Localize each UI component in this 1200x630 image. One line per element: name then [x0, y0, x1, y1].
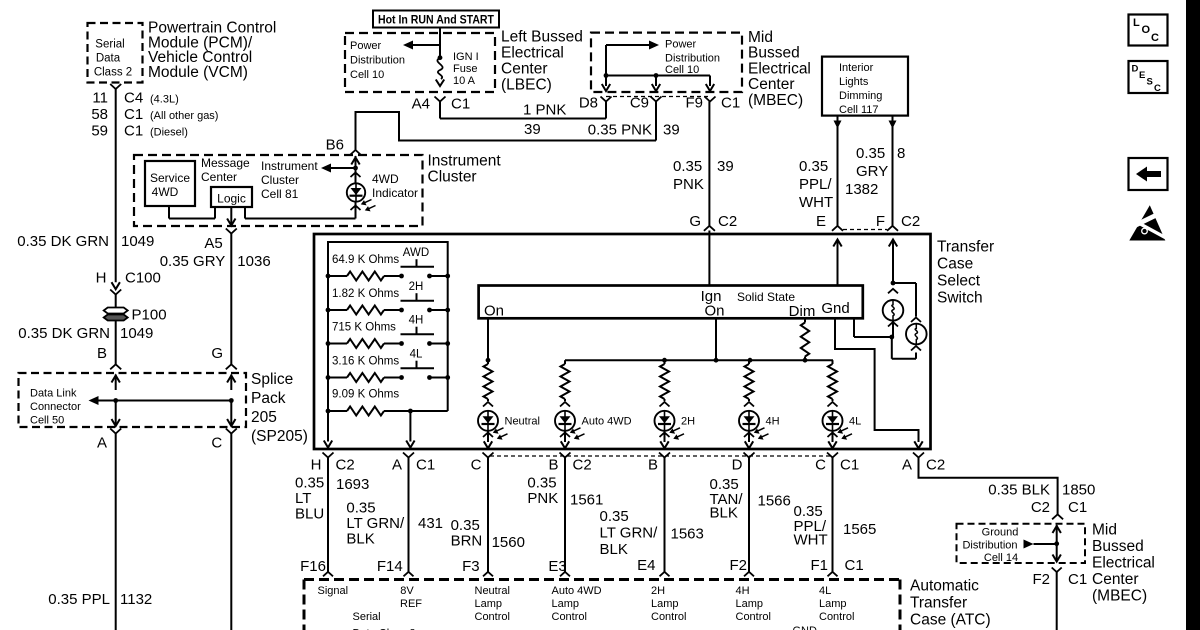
svg-text:10 A: 10 A: [453, 75, 476, 87]
svg-text:(Diesel): (Diesel): [150, 127, 188, 139]
svg-text:0.35 DK GRN: 0.35 DK GRN: [18, 325, 110, 342]
svg-text:BLK: BLK: [346, 531, 374, 548]
svg-text:1036: 1036: [237, 253, 270, 270]
svg-text:PNK: PNK: [673, 176, 704, 193]
svg-text:F14: F14: [377, 558, 403, 575]
svg-text:WHT: WHT: [794, 532, 828, 549]
svg-text:0.35: 0.35: [673, 158, 702, 175]
svg-text:A: A: [97, 435, 107, 452]
svg-text:Service: Service: [150, 171, 190, 185]
svg-text:Pack: Pack: [251, 390, 286, 407]
svg-text:Neutral: Neutral: [475, 585, 510, 597]
svg-text:Switch: Switch: [937, 290, 983, 307]
svg-text:4L: 4L: [819, 585, 831, 597]
svg-text:Electrical: Electrical: [501, 45, 564, 62]
svg-text:11: 11: [92, 90, 108, 107]
svg-text:C: C: [211, 435, 222, 452]
svg-text:G: G: [211, 345, 223, 362]
svg-text:C: C: [1154, 83, 1161, 94]
svg-text:Cell 50: Cell 50: [30, 415, 64, 427]
svg-text:F9: F9: [685, 95, 703, 112]
svg-text:1693: 1693: [336, 476, 369, 493]
svg-text:Cell 81: Cell 81: [261, 187, 299, 201]
svg-text:Cell 14: Cell 14: [984, 552, 1018, 564]
svg-text:Control: Control: [651, 611, 686, 623]
svg-text:Dimming: Dimming: [839, 90, 882, 102]
svg-text:D: D: [732, 457, 743, 474]
svg-text:C: C: [1151, 32, 1159, 44]
svg-text:39: 39: [663, 122, 680, 139]
svg-text:C1: C1: [124, 123, 143, 140]
svg-text:Electrical: Electrical: [748, 60, 811, 77]
svg-text:1049: 1049: [120, 325, 153, 342]
svg-text:0.35 DK GRN: 0.35 DK GRN: [17, 233, 109, 250]
svg-text:(LBEC): (LBEC): [501, 77, 552, 94]
svg-text:4H: 4H: [409, 315, 424, 327]
svg-text:0.35: 0.35: [295, 475, 324, 492]
svg-text:715 K Ohms: 715 K Ohms: [332, 322, 396, 334]
svg-text:Lamp: Lamp: [475, 598, 503, 610]
svg-text:On: On: [704, 303, 724, 320]
svg-text:Case (ATC): Case (ATC): [910, 612, 991, 629]
svg-text:Lamp: Lamp: [736, 598, 764, 610]
svg-text:Automatic: Automatic: [910, 578, 979, 595]
svg-text:Lamp: Lamp: [552, 598, 580, 610]
svg-text:Center: Center: [748, 76, 795, 93]
svg-text:8V: 8V: [400, 585, 414, 597]
svg-text:E: E: [1139, 70, 1145, 81]
svg-text:LT: LT: [295, 490, 311, 507]
svg-text:Message: Message: [201, 156, 250, 170]
svg-text:PNK: PNK: [527, 490, 558, 507]
svg-text:P100: P100: [132, 307, 167, 324]
svg-text:C2: C2: [718, 213, 737, 230]
svg-text:Interior: Interior: [839, 62, 874, 74]
svg-text:39: 39: [524, 121, 541, 138]
svg-text:0.35 PNK: 0.35 PNK: [588, 122, 652, 139]
svg-text:4WD: 4WD: [372, 172, 399, 186]
svg-text:0.35: 0.35: [527, 475, 556, 492]
svg-text:C2: C2: [901, 213, 920, 230]
svg-text:C1: C1: [416, 457, 435, 474]
svg-text:Distribution: Distribution: [962, 540, 1017, 552]
svg-text:BLK: BLK: [600, 541, 628, 558]
svg-text:A: A: [392, 457, 402, 474]
svg-text:Center: Center: [1092, 571, 1139, 588]
svg-text:C2: C2: [926, 457, 945, 474]
svg-text:9.09 K Ohms: 9.09 K Ohms: [332, 389, 399, 401]
svg-text:C: C: [471, 457, 482, 474]
svg-text:LT GRN/: LT GRN/: [346, 515, 405, 532]
svg-text:8: 8: [897, 145, 905, 162]
svg-text:F2: F2: [1032, 571, 1050, 588]
svg-text:E: E: [816, 213, 826, 230]
svg-text:59: 59: [91, 123, 108, 140]
svg-text:BLU: BLU: [295, 506, 324, 523]
svg-text:WHT: WHT: [799, 194, 833, 211]
svg-text:C1: C1: [124, 106, 143, 123]
svg-text:REF: REF: [400, 598, 422, 610]
svg-text:C1: C1: [1068, 571, 1087, 588]
svg-text:Transfer: Transfer: [937, 239, 994, 256]
svg-text:Ground: Ground: [982, 527, 1019, 539]
svg-text:H: H: [311, 457, 322, 474]
svg-text:(All other gas): (All other gas): [150, 110, 218, 122]
svg-text:C9: C9: [630, 95, 649, 112]
svg-text:(4.3L): (4.3L): [150, 94, 179, 106]
svg-text:Solid State: Solid State: [737, 290, 795, 304]
svg-text:Splice: Splice: [251, 371, 293, 388]
svg-text:Signal: Signal: [318, 585, 349, 597]
svg-text:Power: Power: [350, 40, 382, 52]
svg-text:Left Bussed: Left Bussed: [501, 29, 583, 46]
svg-text:F3: F3: [462, 558, 480, 575]
svg-text:Cell 10: Cell 10: [350, 69, 384, 81]
svg-text:B: B: [648, 457, 658, 474]
svg-text:C1: C1: [840, 457, 859, 474]
svg-text:Cell 10: Cell 10: [665, 64, 699, 76]
svg-text:Hot In RUN And START: Hot In RUN And START: [378, 12, 494, 26]
svg-text:58: 58: [91, 106, 108, 123]
svg-text:Mid: Mid: [748, 29, 773, 46]
svg-text:Serial: Serial: [95, 39, 124, 51]
svg-text:1566: 1566: [758, 493, 791, 510]
svg-text:IGN I: IGN I: [453, 51, 479, 63]
svg-text:O: O: [1142, 24, 1151, 36]
svg-text:A5: A5: [204, 235, 222, 252]
svg-text:Cluster: Cluster: [428, 169, 477, 186]
svg-text:Control: Control: [736, 611, 771, 623]
svg-text:0.35: 0.35: [799, 158, 828, 175]
svg-text:0.35: 0.35: [856, 145, 885, 162]
svg-text:Data: Data: [96, 53, 121, 65]
svg-text:E4: E4: [637, 557, 655, 574]
svg-text:0.35 PPL: 0.35 PPL: [48, 591, 110, 608]
svg-text:C1: C1: [721, 95, 740, 112]
svg-text:GND: GND: [793, 625, 818, 630]
svg-text:Cluster: Cluster: [261, 173, 299, 187]
svg-text:64.9 K Ohms: 64.9 K Ohms: [332, 254, 399, 266]
svg-text:(MBEC): (MBEC): [748, 92, 803, 109]
svg-text:Neutral: Neutral: [505, 416, 540, 428]
svg-text:D: D: [1132, 64, 1139, 75]
svg-text:Distribution: Distribution: [350, 55, 405, 67]
svg-text:Lights: Lights: [839, 76, 869, 88]
svg-text:Lamp: Lamp: [819, 598, 847, 610]
svg-text:Connector: Connector: [30, 401, 81, 413]
svg-text:Fuse: Fuse: [453, 63, 477, 75]
svg-text:PPL/: PPL/: [799, 176, 832, 193]
svg-text:Cell 117: Cell 117: [839, 104, 879, 116]
svg-text:39: 39: [717, 158, 734, 175]
svg-text:Lamp: Lamp: [651, 598, 679, 610]
svg-text:205: 205: [251, 409, 277, 426]
svg-text:4WD: 4WD: [152, 185, 179, 199]
svg-text:Bussed: Bussed: [1092, 538, 1144, 555]
svg-text:BRN: BRN: [451, 533, 483, 550]
svg-text:2H: 2H: [409, 281, 424, 293]
svg-text:B6: B6: [326, 137, 344, 154]
svg-text:0.35 BLK: 0.35 BLK: [988, 482, 1050, 499]
svg-text:4L: 4L: [410, 349, 423, 361]
svg-text:B: B: [97, 345, 107, 362]
svg-text:0.35: 0.35: [600, 508, 629, 525]
svg-text:Dim: Dim: [789, 303, 816, 320]
svg-text:H: H: [96, 270, 107, 287]
svg-text:Instrument: Instrument: [428, 153, 502, 170]
svg-text:A: A: [902, 457, 912, 474]
svg-text:C2: C2: [336, 457, 355, 474]
svg-text:Distribution: Distribution: [665, 53, 720, 65]
svg-text:BLK: BLK: [710, 505, 738, 522]
svg-text:Case: Case: [937, 256, 973, 273]
svg-text:GRY: GRY: [856, 163, 888, 180]
svg-text:4H: 4H: [766, 416, 780, 428]
svg-text:F16: F16: [300, 558, 326, 575]
svg-text:On: On: [484, 303, 504, 320]
svg-text:1560: 1560: [492, 534, 525, 551]
svg-text:C1: C1: [845, 557, 864, 574]
svg-text:2H: 2H: [681, 416, 695, 428]
svg-text:C1: C1: [1068, 499, 1087, 516]
svg-text:0.35: 0.35: [451, 517, 480, 534]
svg-text:Data Link: Data Link: [30, 388, 77, 400]
svg-text:1561: 1561: [570, 492, 603, 509]
svg-text:S: S: [1147, 77, 1153, 88]
svg-text:B: B: [548, 457, 558, 474]
svg-text:A4: A4: [412, 96, 430, 113]
svg-text:0.35 GRY: 0.35 GRY: [160, 253, 226, 270]
svg-text:Indicator: Indicator: [372, 186, 418, 200]
svg-text:431: 431: [418, 515, 443, 532]
svg-text:1049: 1049: [121, 233, 154, 250]
svg-text:1132: 1132: [120, 591, 152, 608]
svg-text:Center: Center: [501, 61, 548, 78]
svg-text:LT GRN/: LT GRN/: [600, 525, 659, 542]
svg-text:F: F: [876, 213, 885, 230]
svg-text:Auto 4WD: Auto 4WD: [582, 416, 632, 428]
svg-text:C2: C2: [573, 457, 592, 474]
svg-text:Bussed: Bussed: [748, 45, 800, 62]
svg-text:(SP205): (SP205): [251, 428, 308, 445]
svg-text:Electrical: Electrical: [1092, 555, 1155, 572]
svg-text:Class 2: Class 2: [94, 67, 132, 79]
svg-text:Module (VCM): Module (VCM): [148, 64, 248, 81]
svg-text:D8: D8: [579, 95, 598, 112]
svg-text:Gnd: Gnd: [821, 300, 849, 317]
svg-text:C2: C2: [1031, 499, 1050, 516]
svg-text:Mid: Mid: [1092, 522, 1117, 539]
svg-text:C4: C4: [124, 90, 143, 107]
svg-text:F1: F1: [810, 557, 828, 574]
svg-text:C1: C1: [451, 96, 470, 113]
svg-text:4L: 4L: [849, 416, 861, 428]
svg-text:Transfer: Transfer: [910, 595, 967, 612]
svg-text:E3: E3: [548, 558, 566, 575]
svg-text:G: G: [689, 213, 701, 230]
svg-text:L: L: [1133, 17, 1140, 29]
svg-text:C100: C100: [125, 270, 161, 287]
svg-text:1565: 1565: [843, 521, 876, 538]
svg-text:0.35: 0.35: [346, 500, 375, 517]
svg-text:1.82 K Ohms: 1.82 K Ohms: [332, 288, 399, 300]
svg-text:4H: 4H: [736, 585, 750, 597]
svg-text:AWD: AWD: [403, 247, 429, 259]
svg-text:C: C: [815, 457, 826, 474]
svg-text:Serial: Serial: [353, 611, 381, 623]
svg-text:1 PNK: 1 PNK: [523, 102, 566, 119]
svg-text:1850: 1850: [1062, 482, 1095, 499]
svg-text:2H: 2H: [651, 585, 665, 597]
svg-text:F2: F2: [729, 557, 747, 574]
svg-text:Control: Control: [552, 611, 587, 623]
svg-text:Control: Control: [475, 611, 510, 623]
svg-text:Logic: Logic: [217, 192, 246, 206]
svg-text:1563: 1563: [671, 526, 704, 543]
svg-text:1382: 1382: [845, 181, 878, 198]
svg-text:Power: Power: [665, 39, 697, 51]
svg-text:Center: Center: [201, 170, 237, 184]
svg-text:(MBEC): (MBEC): [1092, 588, 1147, 605]
svg-text:Select: Select: [937, 273, 981, 290]
svg-text:Instrument: Instrument: [261, 159, 318, 173]
svg-text:Auto 4WD: Auto 4WD: [552, 585, 602, 597]
svg-text:Control: Control: [819, 611, 854, 623]
svg-text:3.16 K Ohms: 3.16 K Ohms: [332, 356, 399, 368]
